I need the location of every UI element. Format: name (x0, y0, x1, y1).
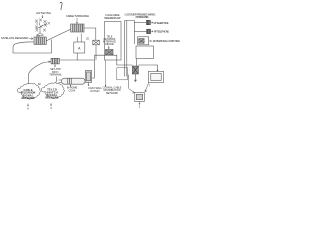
cloud 1 cable network (17, 83, 40, 100)
label outlet 2 lines (88, 87, 103, 93)
wire cable label leader arrow (76, 18, 77, 24)
wire arrow to satellite receiver (29, 38, 34, 40)
svg-text:COAX: COAX (69, 89, 76, 92)
label SET-TOP TERMINAL (49, 68, 62, 77)
svg-text:OUTLET: OUTLET (90, 90, 100, 93)
label customer premises wiring (125, 13, 156, 19)
NID box (105, 22, 122, 61)
wire arrow below modem (139, 102, 140, 105)
PC jack component (139, 39, 144, 44)
wire premises left down (125, 47, 127, 77)
wire A box bottom (59, 53, 94, 78)
set-top converter component (51, 58, 59, 64)
label head-end plant (104, 14, 121, 20)
svg-text:(TWISTED PAIR): (TWISTED PAIR) (136, 16, 149, 19)
svg-text:NETWORK: NETWORK (46, 97, 59, 100)
svg-text:NETWORK: NETWORK (106, 92, 119, 95)
cable service box (71, 24, 85, 32)
satellite receiver box (34, 35, 46, 44)
wire stub jack2 (134, 31, 146, 33)
wire label leader to coax net (105, 60, 106, 87)
wire arrow to NID jack (108, 46, 109, 49)
junction room outline (117, 68, 128, 80)
antenna A1 (35, 19, 50, 36)
wire arrow below cloud2 (50, 103, 51, 106)
label telephone network interface (103, 36, 116, 46)
PC jack box (138, 37, 149, 45)
wire down then diagonal to modem (129, 75, 135, 94)
svg-text:RF TELEPHONE: RF TELEPHONE (154, 31, 169, 34)
svg-text:TERMINAL: TERMINAL (49, 74, 62, 77)
splitter X component top (93, 40, 100, 45)
RF telephone jack 2 (147, 29, 151, 33)
wire set-top label to cloud2 (55, 77, 57, 86)
svg-text:RF PERSONAL COMPUTER: RF PERSONAL COMPUTER (153, 40, 180, 43)
wire TV to modem (145, 83, 149, 92)
small connector on wire (132, 66, 138, 74)
premises wiring box (125, 21, 135, 48)
wire arrow jack1 to label (150, 22, 153, 24)
amplifier box A (74, 34, 85, 54)
svg-text:CABLE TV/DSS DISH: CABLE TV/DSS DISH (66, 14, 89, 18)
svg-text:DEVICE: DEVICE (105, 44, 114, 46)
wire arrow jack2 to label (151, 31, 154, 33)
wire to TV (138, 65, 158, 71)
wire inner premises vertical (126, 21, 128, 48)
cloud 2 telephone network (41, 83, 64, 100)
wire antenna leader (42, 15, 43, 18)
wire arrow below outlet (88, 83, 89, 86)
wire arrow into set-top (44, 61, 51, 63)
wire NID to junction (95, 55, 133, 65)
coax drop cable pill (59, 78, 86, 84)
wire splitter down (95, 45, 97, 60)
wall outlet component (85, 71, 91, 83)
wire diagonal satellite to cable box (47, 29, 72, 41)
NID jack component (106, 50, 114, 56)
TV monitor (149, 71, 164, 82)
wire curve to cloud1 (29, 62, 45, 86)
wire arrow below cloud1 (27, 104, 28, 107)
wire below distribution box (134, 59, 136, 82)
wire stub jack1 (134, 22, 146, 24)
svg-text:NETWORK: NETWORK (22, 97, 35, 100)
RF telephone jack 1 (146, 20, 150, 24)
wire loop under satellite receiver (13, 40, 52, 54)
wire set-top down to label (54, 64, 55, 67)
figure number 1 (60, 2, 62, 10)
wire arrow PC to label (149, 40, 152, 42)
modem box (135, 93, 145, 102)
svg-text:SATELLITE RECEIVER: SATELLITE RECEIVER (1, 36, 28, 40)
lower distribution box (136, 46, 154, 59)
label in-home cable (67, 87, 78, 93)
wire arrow pill label (70, 85, 71, 87)
wire cable box right then down (84, 28, 96, 40)
svg-text:RF TELEPHONE: RF TELEPHONE (154, 22, 169, 25)
label distribution network 3 lines (103, 86, 122, 95)
svg-text:HEAD-END PLANT: HEAD-END PLANT (104, 17, 121, 20)
svg-text:ANTENNA: ANTENNA (36, 11, 51, 15)
